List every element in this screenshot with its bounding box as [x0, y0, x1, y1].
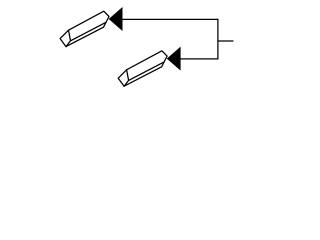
sensor rod D1 (top) body [60, 11, 109, 46]
arrow into D2 [167, 47, 181, 71]
sensor rod D2 (bottom) middle long edge [129, 62, 165, 81]
wire from D1 arrow to bus [122, 18, 218, 20]
sensor rod D1 (top) middle long edge [71, 22, 107, 41]
output stub wire [218, 40, 233, 42]
sensor rod D1 (top) near cap inner edges [66, 30, 71, 46]
vertical bus wire [217, 19, 219, 59]
sensor rod D2 (bottom) body [118, 51, 167, 86]
sensor rod D2 (bottom) near cap inner edges [124, 70, 129, 86]
wire from D2 arrow to bus [180, 58, 218, 60]
arrow into D1 [109, 7, 123, 31]
